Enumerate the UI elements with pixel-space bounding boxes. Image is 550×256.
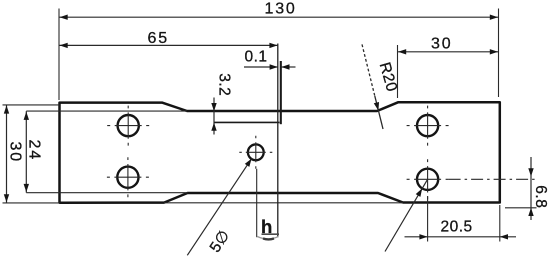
dimension 0.1 [244,49,296,70]
label h [257,216,279,239]
dimension 65 [59,30,278,48]
dimension 20.5 [405,219,517,240]
dimension 0.1 extension line long [277,44,279,238]
thin section top edge extension line [26,110,187,112]
svg-text:6.8: 6.8 [532,185,549,208]
dimension 20.5 extension right [499,205,501,242]
leader R20 [362,44,400,129]
leader to bottom-right hole [385,179,428,251]
dimension 6.8 [528,157,549,220]
hole center [239,136,272,169]
svg-text:24: 24 [26,140,43,161]
svg-text:30: 30 [431,35,452,52]
svg-text:130: 130 [265,1,297,18]
part outline [60,102,500,203]
svg-text:0.1: 0.1 [245,49,268,66]
dimension 0.1 extension line short [280,61,282,124]
dimension 6.8 extension top (hole centerline extended) [449,178,536,180]
svg-text:65: 65 [148,30,169,47]
web recess line (3.2 depth) [214,121,280,123]
dimension 30 left [3,105,60,203]
stock bottom line across middle [164,202,403,204]
leader diameter 5 [187,157,254,256]
dimension 3.2 [211,73,232,134]
dimension h extension left (hole centerline extended down) [256,169,258,237]
hole top-left [107,106,149,146]
hole top-right [407,106,449,146]
hole bottom-right [407,159,449,199]
svg-text:30: 30 [7,142,24,163]
dimension 6.8 extension bottom [505,207,537,209]
dimension 24 [24,111,43,192]
dimension 30 right [398,35,499,98]
dimension 20.5 extension from hole center [427,196,429,242]
dimension 130 [59,1,499,100]
svg-text:20.5: 20.5 [441,219,473,236]
thin section bottom edge extension line [26,192,187,194]
svg-text:3.2: 3.2 [215,73,232,96]
hole bottom-left [107,157,149,197]
